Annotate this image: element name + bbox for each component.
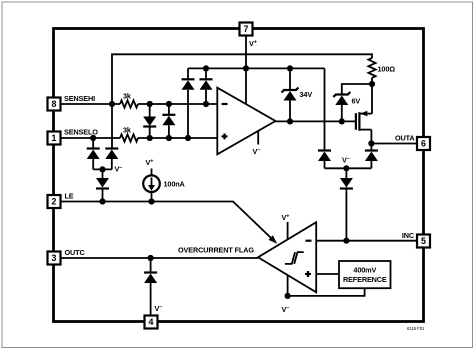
wire flag minus input to INC [316, 240, 417, 242]
svg-text:1: 1 [52, 133, 57, 143]
diode D9 OUTA clamp to V- node [365, 144, 378, 169]
zener Z2 6V [333, 84, 372, 121]
wire SENSELO line left [61, 137, 121, 139]
diode D3 antiparallel clamp (down) [143, 104, 156, 138]
wire 100ohm bottom to drain node [371, 78, 373, 114]
IC boundary box [54, 29, 424, 322]
svg-text:8: 8 [52, 99, 57, 109]
wire V- junction (left clamp) [93, 168, 112, 170]
wire SENSEHI line right to minus input [138, 103, 217, 105]
op-amp U1 main sense amplifier [217, 36, 275, 157]
resistor R2 3k (SENSELO) [120, 134, 138, 141]
pin 1 SENSELO [48, 128, 99, 145]
resistor R1 3k (SENSEHI) [120, 100, 138, 107]
pin 3 OUTC [48, 248, 86, 265]
arrowhead LE into flag comparator [269, 235, 278, 244]
diode D2 input clamp to V+ (SENSEHI side) [200, 68, 213, 104]
wire vertical from SENSEHI junction down to clamp diode [111, 104, 113, 149]
resistor R3 100ohm [368, 58, 375, 78]
wire SENSELO line right to plus input [138, 137, 217, 139]
svg-text:INC: INC [402, 231, 415, 240]
svg-text:3k: 3k [123, 126, 132, 135]
pin 2 LE [48, 192, 74, 209]
diode D10 V+ rail clamp to V- node [318, 151, 331, 169]
wire V- junction (right clamp) [325, 167, 372, 169]
wire OUTC / overcurrent flag line [61, 257, 259, 259]
wire output / gate line [276, 120, 356, 122]
diode D6 SENSEHI branch to V- node [105, 149, 118, 170]
wire flag plus input to reference [316, 273, 339, 275]
wire OUTA line [371, 143, 417, 145]
svg-text:7: 7 [244, 24, 249, 34]
svg-text:100nA: 100nA [164, 180, 186, 189]
pin 7 V+ [240, 23, 257, 49]
svg-text:OVERCURRENT FLAG: OVERCURRENT FLAG [178, 245, 254, 254]
svg-text:34V: 34V [300, 90, 313, 99]
wire LE line [61, 202, 271, 238]
wire flag V- return to reference bottom [288, 288, 365, 296]
svg-text:3: 3 [52, 253, 57, 263]
wire SENSEHI line left [61, 103, 121, 105]
diode D8 OUTC clamp to V- pin4 [144, 258, 162, 316]
diode D11 V- node to INC line (down) [340, 168, 353, 240]
diode D1 input clamp to V+ (SENSELO side) [182, 68, 195, 138]
svg-text:4: 4 [149, 317, 154, 327]
pin 6 OUTA [395, 134, 430, 151]
pin 4 V- [145, 316, 158, 329]
wire V+ rail [188, 67, 325, 69]
svg-text:6: 6 [421, 139, 426, 149]
comparator U2 overcurrent flag (points left) [258, 213, 316, 314]
diode D4 antiparallel clamp (up) [162, 104, 175, 138]
svg-text:OUTC: OUTC [65, 248, 86, 257]
diode D7 V- node to LE line (down) [96, 169, 109, 201]
svg-text:6V: 6V [352, 97, 361, 106]
svg-text:100Ω: 100Ω [378, 65, 396, 74]
svg-text:400mV: 400mV [353, 266, 376, 275]
pin 8 SENSEHI [48, 94, 96, 111]
svg-text:2: 2 [52, 197, 57, 207]
svg-text:5: 5 [421, 236, 426, 246]
svg-text:SENSEHI: SENSEHI [64, 94, 95, 103]
pin 5 INC [402, 231, 430, 248]
diode D5 SENSELO to V- node [87, 138, 100, 169]
block 400mV reference [339, 261, 391, 288]
zener Z1 34V [282, 68, 313, 121]
current source I1 100nA [143, 158, 185, 202]
svg-text:LE: LE [65, 192, 74, 201]
transistor Q1 MOSFET [356, 111, 372, 144]
wire V+ rail drop to OUTA clamp (crosses gate line) [324, 68, 326, 150]
svg-text:REFERENCE: REFERENCE [343, 275, 387, 284]
svg-text:OUTA: OUTA [395, 134, 415, 143]
svg-text:6118 F01: 6118 F01 [407, 326, 425, 331]
svg-text:3k: 3k [123, 92, 132, 101]
wire top feedback rail SENSEHI to 100ohm [112, 54, 372, 104]
